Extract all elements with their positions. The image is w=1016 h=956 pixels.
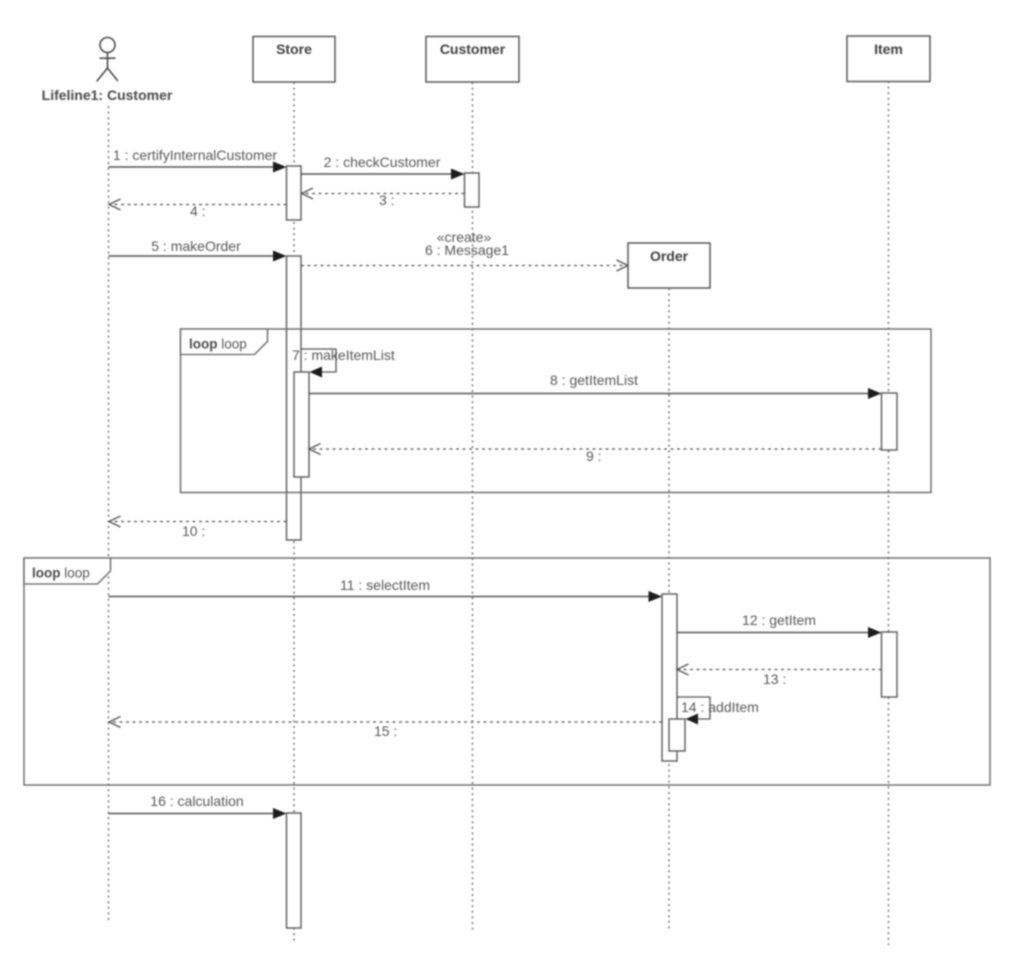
message 13 (return) [677,664,882,687]
activation bar Order nested (msg14) [669,719,685,751]
lifeline Store [293,82,295,943]
svg-text:Item: Item [874,41,903,57]
message 16 : calculation [109,793,287,819]
activation bar Item (msg8) [882,393,898,450]
svg-text:7 : makeItemList: 7 : makeItemList [292,347,395,363]
activation bar Store (msg16) [287,813,302,928]
message 6 : Message1 (create) [301,229,628,271]
svg-text:loop loop: loop loop [189,337,247,352]
message 5 : makeOrder [109,238,287,262]
message 12 : getItem [677,612,882,638]
activation bar Store nested (msg7) [294,372,309,477]
message 3 (return) [302,188,465,208]
svg-text:2 : checkCustomer: 2 : checkCustomer [324,154,441,170]
object box Item [847,36,930,82]
message 9 (return) [309,444,882,465]
lifeline Item [888,81,890,945]
lifeline Lifeline1: Customer (actor) [108,106,110,923]
object box Order [628,243,710,288]
svg-text:Store: Store [276,41,312,57]
loop frame 2 [24,558,990,785]
svg-text:15 :: 15 : [374,723,397,739]
message 4 (return) [109,199,287,219]
activation bar Store (msg1) [287,166,302,220]
svg-text:Order: Order [650,248,689,264]
svg-text:11 : selectItem: 11 : selectItem [340,577,430,593]
svg-text:1 : certifyInternalCustomer: 1 : certifyInternalCustomer [113,147,278,163]
loop frame 1 [181,329,932,493]
message 8 : getItemList [309,372,882,399]
message 2 : checkCustomer [301,154,465,180]
svg-text:16 : calculation: 16 : calculation [150,793,243,809]
svg-text:8 : getItemList: 8 : getItemList [550,372,638,388]
lifeline Order [668,288,670,931]
object box Customer [426,37,519,83]
activation bar Customer (msg2) [465,173,480,207]
object box Store [253,37,335,83]
activation bar Store (msg5) [287,256,302,540]
activation bar Order (msg11) [662,594,677,761]
svg-text:13 :: 13 : [763,671,786,687]
svg-text:10 :: 10 : [182,523,205,539]
svg-text:9 :: 9 : [586,448,602,464]
message 1 : certifyInternalCustomer [109,147,287,173]
message 15 (return) [109,717,662,740]
message 7 : makeItemList (self) [292,347,395,378]
svg-text:Customer: Customer [440,41,506,57]
message 14 : addItem (self) [677,697,759,725]
activation bar Item (msg12) [882,632,898,697]
actor Lifeline1: Customer [97,38,118,82]
svg-text:14 : addItem: 14 : addItem [681,699,759,715]
svg-text:loop loop: loop loop [32,566,90,581]
message 10 (return) [109,516,287,539]
svg-text:Lifeline1: Customer: Lifeline1: Customer [42,87,173,103]
svg-text:5 : makeOrder: 5 : makeOrder [151,238,241,254]
lifeline Customer [472,82,474,931]
svg-text:12 : getItem: 12 : getItem [742,612,816,628]
svg-text:4 :: 4 : [190,203,206,219]
message 11 : selectItem [109,577,663,602]
svg-text:3 :: 3 : [379,192,395,208]
svg-text:6 : Message1: 6 : Message1 [425,242,509,258]
